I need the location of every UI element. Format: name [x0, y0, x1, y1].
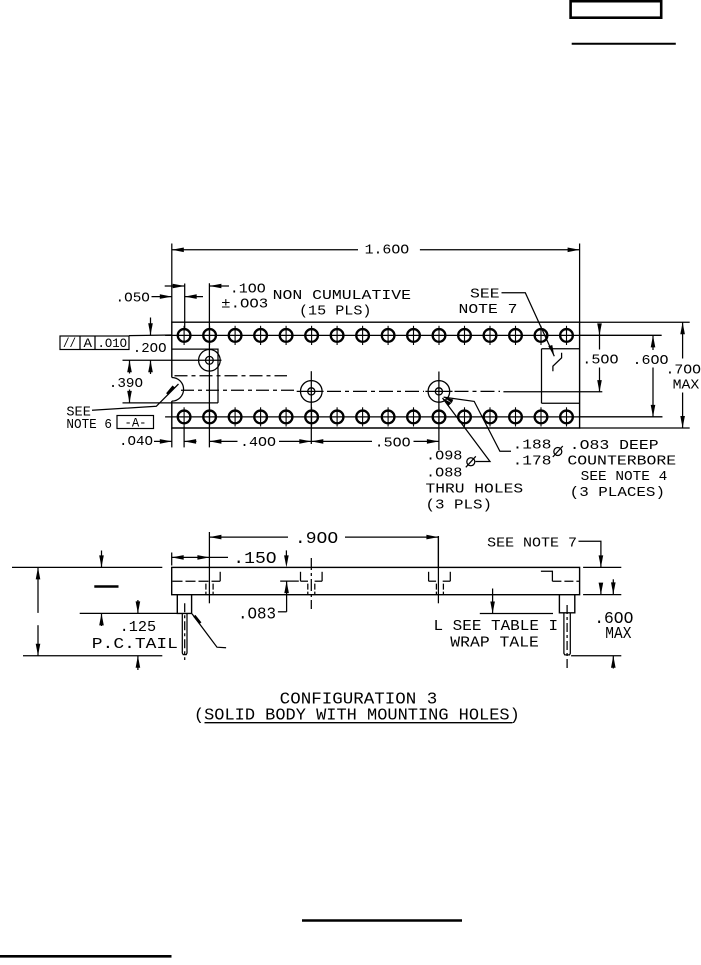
svg-text:.5OO: .5OO — [375, 436, 411, 452]
right extension lines — [503, 322, 689, 428]
svg-text:.15O: .15O — [233, 550, 276, 569]
body outline (plan view rectangle with notch break at left edge) — [172, 322, 580, 428]
dimension .083 (counterbore depth) — [238, 550, 299, 624]
svg-text:1.6OO: 1.6OO — [365, 243, 410, 259]
svg-text:MAX: MAX — [673, 378, 700, 394]
pin socket bottom row #9 — [382, 407, 395, 426]
svg-text:P.C.TAIL: P.C.TAIL — [92, 636, 178, 653]
counterbore hidden lines H2 — [301, 558, 323, 609]
note: SEE NOTE 7 with leader to squiggle — [459, 287, 555, 357]
pin socket bottom row #1 — [178, 407, 191, 426]
svg-text:NOTE 7: NOTE 7 — [459, 302, 518, 318]
pin socket top row #8 — [356, 326, 369, 345]
pin socket bottom row #16 — [560, 407, 573, 426]
mounting hole H2 (counterbored) — [297, 371, 324, 444]
dimension .500 vertical — [582, 323, 618, 392]
dimension 1.600 overall — [172, 243, 580, 323]
pin socket top row #11 — [433, 326, 446, 345]
pin socket bottom row #3 — [229, 407, 242, 426]
svg-text:SEE NOTE 4: SEE NOTE 4 — [581, 469, 668, 485]
label .188/.178 with leader — [444, 397, 563, 469]
footer left rule — [0, 955, 172, 958]
surface squiggle symbol (note 7 target) — [553, 353, 562, 371]
svg-text:MAX: MAX — [605, 625, 631, 644]
counterbore hidden lines H1 — [206, 572, 220, 595]
svg-text:WRAP TALE: WRAP TALE — [450, 635, 539, 652]
pin socket bottom row #7 — [331, 407, 344, 426]
svg-text:THRU HOLES: THRU HOLES — [426, 481, 524, 497]
svg-text:.O4O: .O4O — [119, 434, 153, 450]
dimension .600 MAX (right) — [571, 567, 633, 668]
pin socket bottom row #11 — [433, 407, 446, 426]
body outline (side view) — [172, 567, 580, 594]
pin socket top row #13 — [484, 326, 497, 345]
recess box at right end — [542, 349, 580, 403]
svg-text:L SEE TABLE I: L SEE TABLE I — [434, 618, 559, 635]
svg-text:(3 PLS): (3 PLS) — [426, 498, 493, 514]
counterbore hidden lines H3 — [429, 572, 451, 595]
svg-text:.O1O: .O1O — [98, 336, 128, 351]
svg-text:.2OO: .2OO — [133, 341, 167, 357]
svg-text:-A-: -A- — [125, 416, 147, 431]
svg-text:NON CUMULATIVE: NON CUMULATIVE — [273, 288, 411, 304]
footer center rule — [302, 919, 462, 922]
pin socket bottom row #2 — [203, 407, 216, 426]
centerline H2 to H3 — [327, 390, 424, 392]
pin socket bottom row #12 — [458, 407, 471, 426]
svg-text:.O88: .O88 — [426, 465, 462, 481]
leader to P.C. tail (hatched) — [192, 614, 226, 648]
svg-text:±.OO3: ±.OO3 — [221, 297, 268, 313]
svg-text:.1OO: .1OO — [230, 282, 266, 298]
svg-text:COUNTERBORE: COUNTERBORE — [567, 453, 676, 469]
hidden ledge line left segment — [173, 580, 221, 582]
pin socket top row #10 — [407, 326, 420, 345]
pin socket top row #14 — [509, 326, 522, 345]
dimension body top to tail shoulder (arrows) — [80, 551, 178, 627]
dimension .390 — [109, 360, 143, 403]
dimension .050 — [116, 284, 204, 329]
wrap tail standoff block — [559, 595, 574, 613]
pin socket top row #2 — [203, 326, 216, 345]
pin socket bottom row #5 — [280, 407, 293, 426]
P.C. tail pin — [182, 603, 187, 660]
hidden line lower (notch to H2) — [181, 389, 296, 391]
caption underline — [205, 722, 513, 724]
mounting hole H1 (counterbored) — [123, 283, 222, 447]
H1 centerline through side view — [208, 532, 210, 603]
edge notch arc (SEE NOTE 6 feature) — [172, 378, 184, 402]
svg-text:SEE: SEE — [470, 287, 500, 303]
P.C. tail standoff block — [177, 595, 191, 614]
svg-text:.5OO: .5OO — [582, 353, 618, 369]
svg-text:(3 PLACES): (3 PLACES) — [570, 485, 665, 501]
pin socket top row #16 — [560, 326, 573, 345]
left height dimension (no text) — [12, 567, 162, 655]
svg-text:.9OO: .9OO — [295, 530, 338, 549]
dimension .400 — [209, 435, 311, 451]
svg-text:SEE NOTE 7: SEE NOTE 7 — [487, 535, 577, 551]
svg-text:.7OO: .7OO — [666, 363, 701, 379]
pin socket bottom row #15 — [535, 407, 548, 426]
svg-text:(15 PLS): (15 PLS) — [299, 304, 372, 320]
dimension .600 vertical — [633, 335, 669, 417]
svg-text:.125: .125 — [120, 619, 157, 636]
centerline H3 to recess — [455, 390, 501, 392]
dimension .500 horizontal — [311, 436, 439, 452]
dimension .200 — [133, 318, 167, 375]
boss box around mounting hole H1 — [123, 349, 219, 403]
svg-text:.6OO: .6OO — [633, 353, 669, 369]
dimension .150 — [172, 550, 277, 569]
wrap tail pin — [564, 605, 570, 668]
feature control frame // A .010 — [60, 335, 172, 351]
title underline rule — [572, 43, 676, 45]
pin socket top row #7 — [331, 326, 344, 345]
hidden recess step right — [541, 571, 580, 581]
svg-text:.O83 DEEP: .O83 DEEP — [570, 438, 659, 454]
pin socket bottom row #4 — [254, 407, 267, 426]
note: SEE NOTE 6 with hatched leader — [66, 384, 178, 433]
top pin row centerline — [165, 334, 661, 336]
label .083 DEEP COUNTERBORE SEE NOTE 4 (3 PLACES) — [567, 438, 676, 501]
bottom pin row centerline — [165, 416, 662, 418]
svg-text:.4OO: .4OO — [240, 435, 276, 451]
dimension .700 MAX vertical — [666, 322, 701, 428]
pin socket top row #15 — [535, 326, 548, 345]
svg-text:A: A — [84, 336, 93, 351]
svg-text://: // — [63, 336, 76, 351]
hidden line upper (boss to H2) — [175, 375, 288, 377]
svg-text:.O83: .O83 — [238, 606, 276, 625]
dimension .100 ±.003 — [165, 282, 269, 313]
floating tick mark — [94, 585, 118, 588]
pin socket bottom row #10 — [407, 407, 420, 426]
datum box -A- — [117, 416, 154, 431]
svg-text:NOTE 6: NOTE 6 — [66, 417, 112, 433]
svg-text:.O98: .O98 — [426, 448, 462, 464]
dimension .040 — [119, 427, 197, 451]
svg-text:.188: .188 — [513, 438, 552, 454]
note: NON CUMULATIVE (15 PLS) — [273, 288, 411, 319]
pin socket top row #5 — [280, 326, 293, 345]
mounting hole H3 (counterbored) — [425, 372, 452, 451]
title block box (top right) — [571, 1, 662, 18]
pin socket bottom row #13 — [484, 407, 497, 426]
pin socket top row #9 — [382, 326, 395, 345]
pin socket top row #3 — [229, 326, 242, 345]
pin socket bottom row #14 — [509, 407, 522, 426]
svg-text:.178: .178 — [513, 453, 552, 469]
svg-text:.39O: .39O — [109, 376, 143, 392]
pin socket top row #4 — [254, 326, 267, 345]
svg-text:.O5O: .O5O — [116, 290, 150, 306]
pin socket top row #6 — [305, 326, 318, 345]
note: L SEE TABLE I / WRAP TALE — [434, 589, 559, 652]
label .098/.088 thru holes with leader — [426, 398, 524, 514]
dimension .125 P.C.TAIL — [92, 600, 178, 670]
pin socket bottom row #8 — [356, 407, 369, 426]
pin socket top row #12 — [458, 326, 471, 345]
pin socket bottom row #6 — [305, 407, 318, 426]
dimension .900 — [209, 530, 438, 568]
H3 centerline through side view — [437, 536, 439, 603]
note: SEE NOTE 7 (side) with leader — [487, 535, 603, 567]
pin socket top row #1 — [178, 326, 191, 345]
